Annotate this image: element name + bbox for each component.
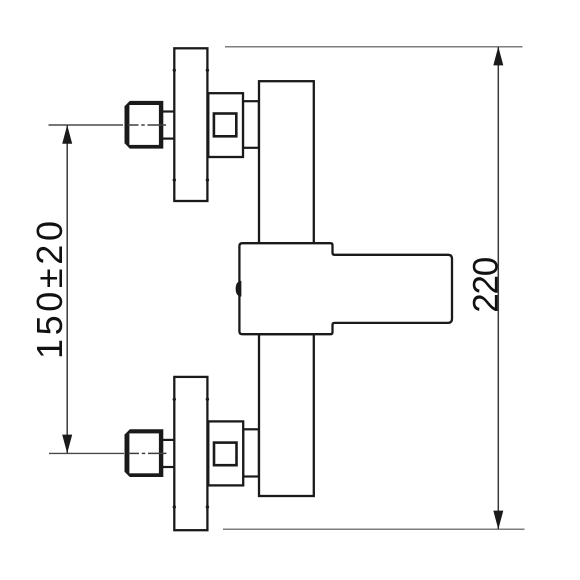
bottom supply pipe xyxy=(161,439,174,441)
bottom cartridge square xyxy=(214,443,237,466)
top supply pipe xyxy=(161,110,174,112)
flange tick bottom-left xyxy=(173,178,176,181)
riser column top xyxy=(259,81,314,243)
extension line top (220 dim) xyxy=(225,46,523,48)
top escutcheon xyxy=(208,93,243,157)
mixer body with spout xyxy=(239,243,452,334)
bottom connector sleeve xyxy=(243,429,259,476)
arrow down (150 bottom) xyxy=(62,435,72,454)
top flange xyxy=(174,48,207,201)
riser column bottom xyxy=(259,334,314,496)
svg-text:220: 220 xyxy=(467,257,506,313)
flange tick top-left xyxy=(173,69,176,72)
flange tick top-left (bottom flange) xyxy=(173,398,176,401)
extension line bottom (220 dim) xyxy=(223,528,525,530)
bottom flange xyxy=(174,377,207,530)
top cartridge square xyxy=(214,114,236,137)
centerline bottom supply: dash-dot overlay xyxy=(128,452,139,454)
flange tick top-right xyxy=(206,69,209,72)
centerline top supply: dash-dot overlay xyxy=(128,124,139,126)
flange tick bottom-left (bottom flange) xyxy=(173,505,176,508)
flange tick bottom-right (bottom flange) xyxy=(206,505,209,508)
centerline bottom supply: solid extension part xyxy=(49,452,124,454)
flange tick top-right (bottom flange) xyxy=(206,398,209,401)
bottom escutcheon xyxy=(208,421,243,485)
centerline top supply: solid extension part xyxy=(49,124,124,126)
arrow down (220 bottom) xyxy=(493,511,503,530)
top connector sleeve xyxy=(243,101,259,148)
dimension line 150±20 xyxy=(66,125,68,453)
flange tick bottom-right xyxy=(206,178,209,181)
top nut xyxy=(125,101,164,149)
diverter knob bump xyxy=(236,282,240,296)
arrow up (220 top) xyxy=(493,47,503,66)
bottom nut xyxy=(125,429,164,477)
arrow up (150 top) xyxy=(62,125,72,144)
dimension line 220 xyxy=(497,47,499,529)
